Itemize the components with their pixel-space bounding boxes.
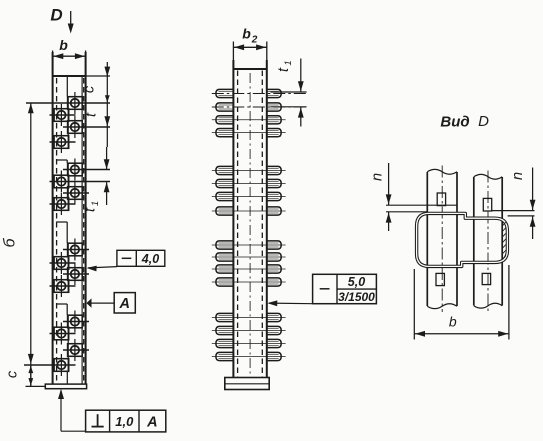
lower tab on right bar	[482, 273, 490, 284]
hole R3 with plate	[63, 159, 110, 181]
svg-text:b: b	[59, 37, 68, 53]
svg-text:b: b	[449, 314, 457, 330]
svg-text:c: c	[5, 370, 21, 378]
dimension b (left view)	[53, 37, 86, 76]
right tab row 15	[266, 339, 281, 347]
left tab row 4	[216, 129, 234, 137]
right tab row 1	[266, 89, 281, 97]
left bar edges	[427, 172, 457, 306]
right bar break lines	[474, 174, 502, 308]
right tab row 5	[266, 166, 281, 174]
right tab row 16	[266, 352, 281, 360]
view label Vid D	[440, 113, 489, 131]
svg-text:1,0: 1,0	[115, 414, 134, 429]
right bar edges	[474, 177, 502, 306]
svg-text:A: A	[146, 414, 157, 430]
middle column hidden edges (dashed)	[238, 71, 263, 378]
left column hidden flange lines (dashed)	[57, 78, 84, 382]
dimension t (right)	[84, 103, 111, 147]
hole R4 with plate	[63, 182, 89, 204]
dimension c (bottom left)	[5, 365, 46, 387]
left base plate	[45, 384, 86, 389]
hole L6 with plate	[50, 275, 76, 297]
right tab row 13	[266, 313, 281, 321]
lower tab on left bar	[436, 273, 444, 285]
right tab row 14	[266, 326, 281, 334]
dimension B (left overall)	[2, 103, 34, 387]
svg-text:4,0: 4,0	[141, 252, 159, 266]
hatching at clip right end	[503, 222, 506, 259]
right tab row 8	[266, 207, 281, 215]
clip strap	[417, 213, 508, 266]
middle column centerline	[249, 73, 251, 378]
left tab row 9	[216, 241, 234, 249]
right tab row 10	[266, 253, 281, 261]
upper tab on left bar	[437, 193, 445, 206]
dimension n (right)	[492, 168, 536, 240]
hole L5 with plate	[50, 252, 76, 274]
right tab row 6	[266, 179, 281, 187]
svg-text:1: 1	[90, 201, 101, 206]
hole R7 with plate	[63, 311, 89, 333]
left tab row 15	[216, 339, 234, 347]
hole L4 with plate	[50, 193, 76, 215]
right tab row 2	[266, 103, 281, 111]
svg-text:D: D	[478, 113, 489, 130]
left tab row 16	[216, 352, 234, 360]
hole R8 with plate	[63, 339, 89, 361]
hole L2 with plate	[50, 131, 76, 153]
left tab row 14	[216, 326, 234, 334]
right tab row 4	[266, 129, 281, 137]
dimension c (top right)	[82, 62, 111, 103]
left bar centerline	[441, 166, 443, 313]
svg-text:b: b	[242, 26, 251, 42]
hole R5 with plate	[63, 239, 89, 261]
datum feature A flag	[86, 293, 135, 313]
svg-text:n: n	[510, 172, 526, 180]
svg-text:б: б	[2, 238, 19, 248]
left bar break lines	[427, 169, 457, 308]
left tab row 12	[216, 278, 234, 286]
hole L1 with plate	[50, 104, 76, 126]
left column inner flange edge	[81, 76, 83, 384]
hole R6 with plate	[63, 263, 89, 285]
svg-text:D: D	[50, 6, 62, 25]
left tab row 13	[216, 313, 234, 321]
right tab row 11	[266, 265, 281, 273]
upper tab on right bar	[483, 198, 491, 211]
hole L8 with plate	[24, 354, 76, 376]
dimension t1 (middle view)	[271, 59, 307, 127]
hole R1 with plate	[26, 92, 110, 114]
left column outer edges	[53, 52, 86, 384]
left tab row 1	[216, 89, 234, 97]
left tab row 2	[216, 103, 234, 111]
hole L7 with plate	[50, 323, 76, 345]
right tab row 9	[266, 241, 281, 249]
left tab row 10	[216, 253, 234, 261]
dimension b (right view)	[414, 265, 509, 340]
perpendicularity tolerance frame	[86, 410, 166, 432]
weld callout box 5,0 / 3/1500	[267, 274, 376, 306]
lattice serpentine verticals	[56, 77, 68, 384]
svg-text:3/1500: 3/1500	[338, 290, 375, 304]
left tab row 6	[216, 179, 234, 187]
svg-text:1: 1	[283, 60, 294, 65]
view direction arrow	[68, 11, 74, 34]
weld callout box 4,0	[87, 250, 165, 271]
middle column outer edges	[233, 60, 266, 378]
left tab row 3	[216, 116, 234, 124]
svg-text:2: 2	[251, 35, 258, 46]
hole L3 with plate	[50, 171, 111, 193]
right tab row 7	[266, 192, 281, 200]
tolerance frame leader to base	[58, 389, 86, 431]
svg-text:5,0: 5,0	[348, 275, 365, 289]
right bar centerline	[487, 171, 489, 313]
tab row centerlines	[212, 94, 306, 357]
middle base plate	[225, 378, 269, 390]
left tab row 8	[216, 207, 234, 215]
left tab row 7	[216, 192, 234, 200]
dimension t1 (right)	[83, 147, 110, 212]
svg-text:c: c	[82, 85, 98, 93]
svg-text:n: n	[370, 173, 386, 181]
dimension b2 (middle view)	[233, 26, 266, 70]
right tab row 12	[266, 278, 281, 286]
left tab row 11	[216, 265, 234, 273]
svg-text:Вид: Вид	[440, 114, 469, 131]
dimension n (left)	[370, 163, 458, 231]
left tab row 5	[216, 166, 234, 174]
svg-text:A: A	[118, 296, 129, 312]
hole R2 with plate	[63, 116, 110, 138]
right tab row 3	[266, 116, 281, 124]
